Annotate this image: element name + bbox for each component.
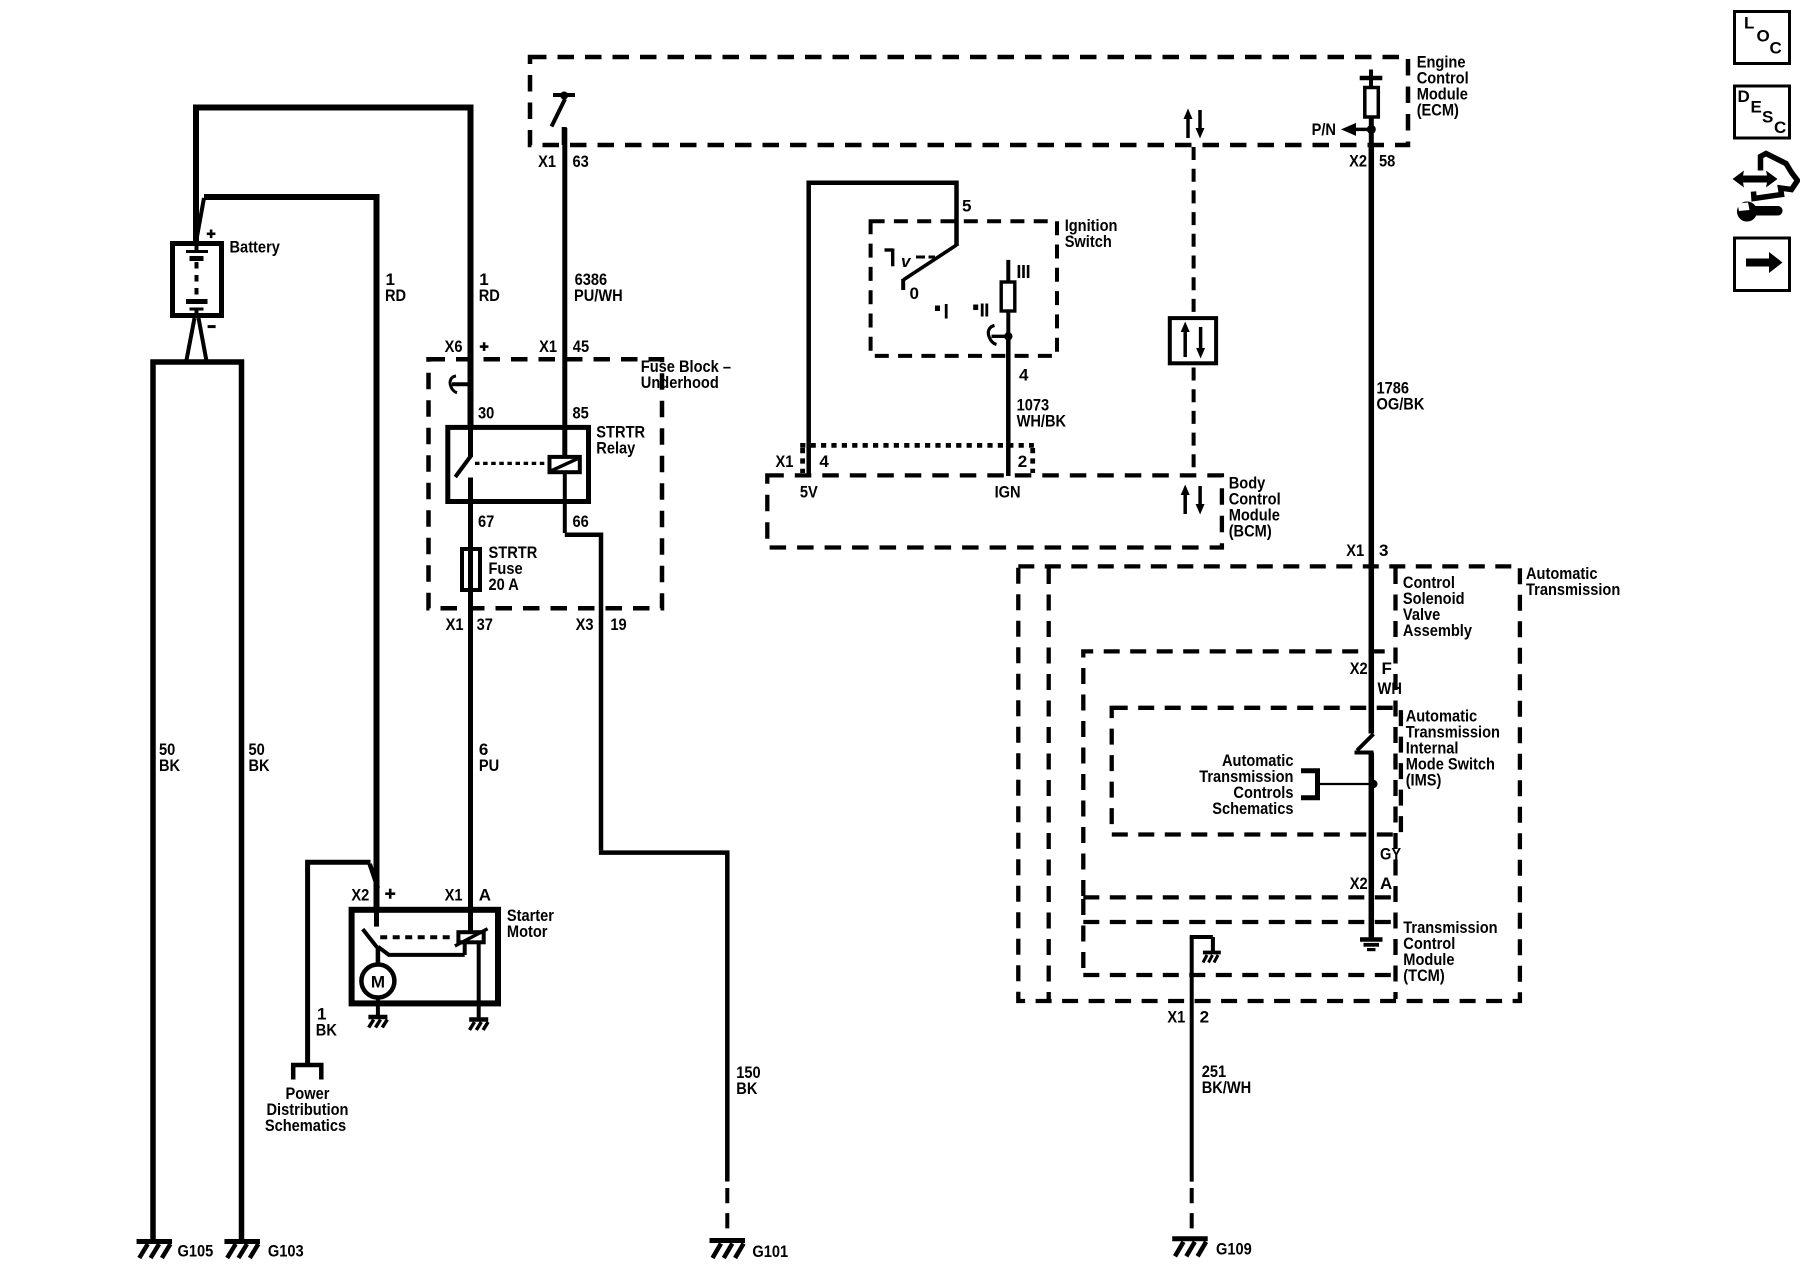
ground G101 xyxy=(710,1241,746,1259)
svg-text:4: 4 xyxy=(1019,366,1029,385)
svg-text:63: 63 xyxy=(573,152,589,171)
label 6 PU xyxy=(479,740,499,775)
label 6386 PU/WH xyxy=(574,270,623,305)
starter solenoid coil xyxy=(455,907,488,946)
serial data double-arrow inside ECM xyxy=(1184,109,1205,139)
ECM label xyxy=(1417,53,1469,120)
ground (starter motor case) xyxy=(368,1017,387,1028)
svg-text:Assembly: Assembly xyxy=(1403,621,1473,640)
relay coil 85-86 xyxy=(549,427,581,472)
svg-text:G103: G103 xyxy=(268,1242,304,1261)
svg-text:Battery: Battery xyxy=(230,238,281,257)
label 1 RD (fuse block feed) xyxy=(479,270,500,305)
svg-text:M: M xyxy=(371,973,385,992)
svg-text:37: 37 xyxy=(477,615,493,634)
Automatic Transmission dashed box xyxy=(1018,566,1520,1001)
starter solenoid dashed link xyxy=(380,935,454,939)
label Fuse Block Underhood xyxy=(641,357,731,392)
svg-text:19: 19 xyxy=(610,615,626,634)
svg-text:4: 4 xyxy=(819,452,829,471)
wire: battery + to starter X2 (1 RD) xyxy=(196,197,376,926)
battery B1 xyxy=(173,230,281,327)
svg-text:A: A xyxy=(479,886,491,905)
node P/N with arrow xyxy=(1312,120,1376,139)
Starter Motor box xyxy=(352,910,498,1004)
label Automatic Transmission Controls Schematics xyxy=(1199,751,1293,818)
wire: relay 86 to G101 (150 BK) xyxy=(565,472,728,1229)
off-page half box (Power Distribution) xyxy=(293,1065,321,1080)
STRTR Relay box xyxy=(448,427,589,501)
battery + mark xyxy=(207,233,216,236)
svg-text:(IMS): (IMS) xyxy=(1406,771,1442,790)
svg-text:E: E xyxy=(1751,98,1762,117)
svg-text:3: 3 xyxy=(1379,541,1388,560)
svg-text:A: A xyxy=(1380,874,1392,893)
wire: AT X1-3 to IMS (WH) xyxy=(1369,567,1375,734)
svg-text:X1: X1 xyxy=(1167,1008,1185,1027)
svg-text:BK: BK xyxy=(736,1079,758,1098)
svg-text:(TCM): (TCM) xyxy=(1403,966,1444,985)
svg-text:WH: WH xyxy=(1378,679,1402,698)
pin labels X1 4 2 (BCM) xyxy=(776,452,1028,471)
svg-text:X1: X1 xyxy=(1346,541,1364,560)
battery - mark xyxy=(208,325,216,328)
svg-text:30: 30 xyxy=(478,404,494,423)
svg-text:C: C xyxy=(1770,39,1782,58)
svg-text:X2: X2 xyxy=(1350,659,1368,678)
chassis ground inside TCM (3-bar) xyxy=(1360,940,1383,950)
svg-text:RD: RD xyxy=(385,286,406,305)
svg-text:(BCM): (BCM) xyxy=(1229,522,1272,541)
svg-text:Transmission: Transmission xyxy=(1526,580,1620,599)
svg-text:RD: RD xyxy=(479,286,500,305)
Control Solenoid Valve Assembly dashed box xyxy=(1049,568,1396,999)
svg-text:X1: X1 xyxy=(445,886,463,905)
svg-text:S: S xyxy=(1762,108,1773,127)
svg-text:45: 45 xyxy=(573,337,589,356)
serial data double-arrow inside BCM xyxy=(1181,485,1205,515)
TCM inner connector dashed line xyxy=(1083,920,1393,924)
label Automatic Transmission xyxy=(1526,564,1620,599)
wire: TCM X1-2 to G109 (251 BK/WH) xyxy=(1190,1188,1194,1229)
svg-text:G101: G101 xyxy=(752,1242,788,1261)
icon DESC box xyxy=(1735,86,1790,138)
wire: battery - fork to ground runs (50 BK) xyxy=(153,318,242,1241)
wire: ECM X1-63 to fuse block X1-45 (6386 PU/WH) xyxy=(562,128,567,456)
svg-text:O: O xyxy=(1757,27,1770,46)
svg-text:L: L xyxy=(1744,14,1754,33)
svg-text:P/N: P/N xyxy=(1312,120,1336,139)
relay switch contact 30-87 xyxy=(455,427,471,548)
ground (starter solenoid case) xyxy=(469,1020,488,1031)
svg-text:5: 5 xyxy=(962,197,971,216)
icon LOC box xyxy=(1735,12,1790,64)
svg-text:Motor: Motor xyxy=(507,922,548,941)
Engine Control Module (ECM) dashed box xyxy=(530,57,1408,145)
svg-text:WH/BK: WH/BK xyxy=(1017,412,1067,431)
label Control Solenoid Valve Assembly xyxy=(1403,573,1473,640)
svg-text:v: v xyxy=(901,252,912,271)
Body Control Module (BCM) dashed box xyxy=(767,475,1222,547)
svg-text:G109: G109 xyxy=(1216,1240,1252,1259)
svg-text:BK: BK xyxy=(159,756,181,775)
svg-text:66: 66 xyxy=(573,512,589,531)
svg-text:Underhood: Underhood xyxy=(641,373,719,392)
svg-text:X1: X1 xyxy=(538,152,556,171)
svg-text:F: F xyxy=(1382,659,1392,678)
svg-text:X2: X2 xyxy=(351,886,369,905)
svg-text:GY: GY xyxy=(1380,845,1402,864)
pin label X2 58 (ECM) xyxy=(1349,152,1395,171)
svg-text:(ECM): (ECM) xyxy=(1417,101,1459,120)
ignition switch movable contact xyxy=(903,245,956,290)
pin labels 30 / 85 (relay) xyxy=(478,404,589,423)
pin labels 67 / 66 xyxy=(478,512,589,531)
svg-text:X1: X1 xyxy=(446,615,464,634)
svg-text:BK: BK xyxy=(249,756,271,775)
IMS middle dashed box xyxy=(1083,651,1394,896)
ground G105 xyxy=(137,1242,173,1259)
svg-text:67: 67 xyxy=(478,512,494,531)
pin labels X2 F / WH xyxy=(1350,659,1402,698)
motor M xyxy=(361,965,394,998)
svg-text:PU: PU xyxy=(479,756,499,775)
svg-text:X2: X2 xyxy=(1350,874,1368,893)
svg-text:X2: X2 xyxy=(1349,152,1367,171)
wire: relay 87 to starter X1-A (6 PU) xyxy=(468,610,473,931)
label STRTR Relay xyxy=(596,423,645,458)
ground G109 xyxy=(1172,1239,1208,1257)
pin labels X2 + / X1 A (starter) xyxy=(351,886,491,905)
svg-text:D: D xyxy=(1738,87,1750,106)
position mark III (by resistor) xyxy=(1019,265,1028,278)
relay coil dashed actuator link xyxy=(475,462,546,465)
svg-text:X1: X1 xyxy=(539,337,557,356)
svg-text:Switch: Switch xyxy=(1065,232,1112,251)
svg-text:5V: 5V xyxy=(800,483,818,502)
wire: starter X2 to Power Distribution (1 BK) xyxy=(308,862,378,1064)
serial data box with double arrows xyxy=(1170,318,1216,363)
BCM X1 connector dotted strip xyxy=(800,445,1034,473)
svg-text:BK: BK xyxy=(316,1021,338,1040)
svg-text:20 A: 20 A xyxy=(489,575,519,594)
label Ignition Switch xyxy=(1065,216,1118,251)
svg-text:X1: X1 xyxy=(776,452,794,471)
position glyph v and dashes xyxy=(901,252,935,271)
label 1073 WH/BK xyxy=(1017,396,1067,431)
STRTR Fuse 20 A xyxy=(462,543,537,610)
wire: coil to case ground xyxy=(477,942,481,1020)
label Automatic Transmission Internal Mode Switch (IMS) xyxy=(1406,707,1500,790)
position mark I xyxy=(935,304,946,319)
svg-text:2: 2 xyxy=(1200,1008,1209,1027)
Ignition Switch dashed box xyxy=(871,221,1057,356)
net labels 5V IGN xyxy=(800,483,1021,502)
label Transmission Control Module (TCM) xyxy=(1403,918,1497,985)
pin label X1 2 (TCM) xyxy=(1167,1008,1209,1027)
svg-text:G105: G105 xyxy=(178,1242,214,1261)
inner dashed box (AT controls schematics) xyxy=(1112,708,1401,835)
icon forward arrow box xyxy=(1735,238,1790,291)
pin labels X1 37 / X3 19 xyxy=(446,615,627,634)
svg-text:58: 58 xyxy=(1379,152,1395,171)
label 251 BK/WH xyxy=(1202,1062,1252,1097)
svg-text:PU/WH: PU/WH xyxy=(574,286,623,305)
label 1786 OG/BK xyxy=(1377,378,1426,413)
pin labels X2 A xyxy=(1350,874,1393,893)
label 150 BK xyxy=(736,1063,760,1098)
label 1 RD (starter feed) xyxy=(385,270,406,305)
svg-text:2: 2 xyxy=(1018,452,1027,471)
label 50 BK (right run) xyxy=(249,740,271,775)
ignition contact hook and junction xyxy=(988,326,1012,477)
starter solenoid switch xyxy=(363,907,378,965)
wire: battery + to fuse block X6 (1 RD) xyxy=(196,108,471,428)
wire: ECM X2-58 to AT X1-3 (1786 OG/BK) xyxy=(1369,145,1375,567)
pin labels X6 + / X1 45 xyxy=(445,337,589,356)
wire: ignition switch 5 to BCM 5V (530 WH) xyxy=(809,183,957,475)
pin label X1 3 (AT) xyxy=(1346,541,1388,560)
svg-text:X6: X6 xyxy=(445,337,463,356)
label Power Distribution Schematics xyxy=(265,1084,349,1135)
svg-text:Relay: Relay xyxy=(596,439,635,458)
Fuse Block - Underhood dashed box xyxy=(429,359,663,608)
label BCM xyxy=(1229,474,1281,541)
wire: motor to case ground xyxy=(376,998,380,1018)
ignition fixed contact (START) xyxy=(885,249,893,267)
IMS switch contact xyxy=(1355,734,1374,940)
svg-text:Schematics: Schematics xyxy=(265,1116,346,1135)
svg-text:85: 85 xyxy=(573,404,589,423)
off-page bracket to controls schematics xyxy=(1301,771,1378,798)
Transmission Control Module dashed box xyxy=(1083,897,1394,975)
label 50 BK (left run) xyxy=(159,740,181,775)
svg-text:IGN: IGN xyxy=(995,483,1021,502)
svg-text:C: C xyxy=(1774,118,1786,137)
position mark II xyxy=(973,304,987,317)
resistor (park/neutral pull-up) inside ECM xyxy=(1360,70,1383,146)
TCM case ground hook xyxy=(1190,937,1221,1182)
icon schematic reference (arrows + wrench) xyxy=(1733,154,1798,222)
svg-text:X3: X3 xyxy=(576,615,594,634)
svg-text:0: 0 xyxy=(910,284,919,303)
dashed serial data line ECM to BCM xyxy=(1192,147,1196,473)
wire: coil to motor junction xyxy=(378,942,465,955)
label 1 BK xyxy=(316,1005,338,1040)
svg-text:BK/WH: BK/WH xyxy=(1202,1078,1252,1097)
label Starter Motor xyxy=(507,906,554,941)
ground G103 xyxy=(224,1242,260,1259)
switch S inside ECM (crank request) xyxy=(552,92,576,146)
fusible link hook at X6 xyxy=(450,376,470,393)
svg-text:Schematics: Schematics xyxy=(1212,799,1293,818)
pin label X1 63 (ECM) xyxy=(538,152,589,171)
svg-text:OG/BK: OG/BK xyxy=(1377,394,1426,413)
ignition resistor (key-in resistor) xyxy=(1001,260,1015,334)
